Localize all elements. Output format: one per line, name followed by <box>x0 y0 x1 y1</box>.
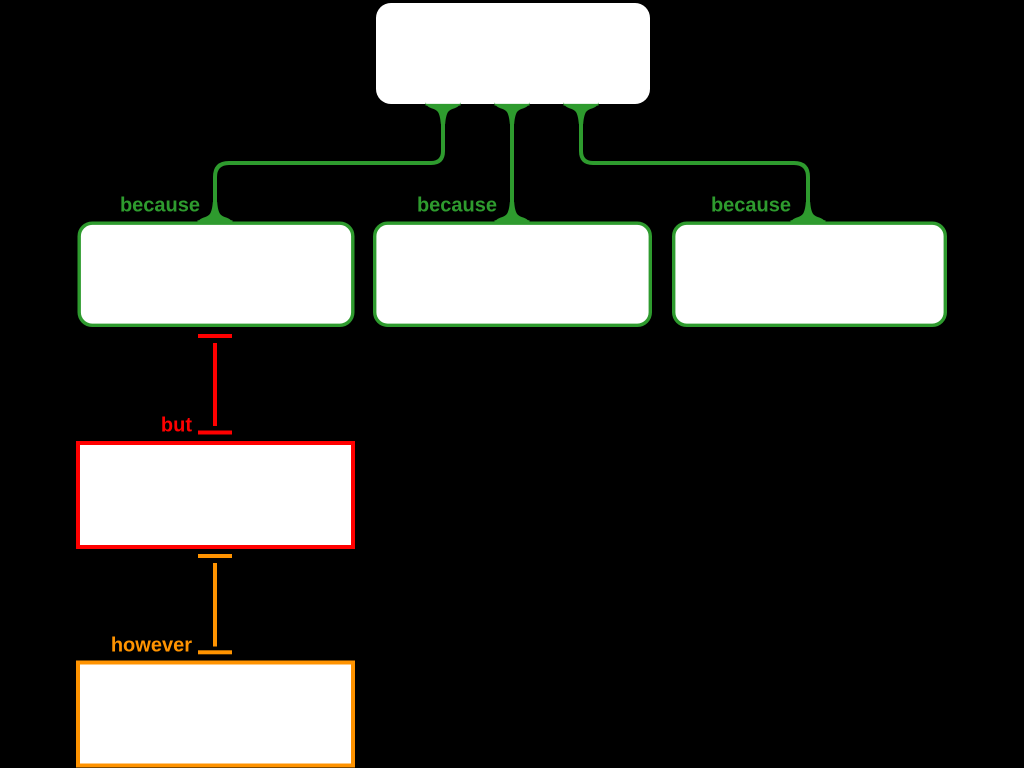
wire middle-branch from contention to reason 2 <box>510 106 514 219</box>
flare at contention bottom, branch 3 <box>564 104 598 124</box>
flare at contention bottom, branch 1 <box>426 104 460 124</box>
but-connector top bar <box>198 334 232 338</box>
flare into reason box 3 top <box>791 202 825 222</box>
flare into reason box 2 top <box>495 202 529 222</box>
however-connector top bar <box>198 554 232 558</box>
flare into reason box 1 top <box>198 202 232 222</box>
however-connector bottom bar <box>198 650 232 654</box>
wire left-branch from contention to reason 1 <box>215 106 443 219</box>
wire right-branch from contention to reason 3 <box>581 106 808 219</box>
but-connector bottom bar <box>198 431 232 435</box>
svg-text:because: because <box>417 195 497 217</box>
but-connector vertical line <box>213 343 217 426</box>
svg-text:however: however <box>111 635 192 657</box>
however-connector vertical line <box>213 563 217 647</box>
reason box 3 (green rounded box right) <box>674 223 946 325</box>
objection box (red rectangle) <box>78 443 353 547</box>
flare at contention bottom, branch 2 <box>495 104 529 124</box>
reason box 1 (green rounded box left) <box>79 223 353 325</box>
reason box 2 (green rounded box middle) <box>375 223 651 325</box>
svg-text:because: because <box>120 195 200 217</box>
svg-text:because: because <box>711 195 791 217</box>
svg-text:but: but <box>161 415 192 437</box>
rebuttal box (orange rectangle) <box>78 663 353 766</box>
contention box (top white rounded box) <box>376 3 650 104</box>
